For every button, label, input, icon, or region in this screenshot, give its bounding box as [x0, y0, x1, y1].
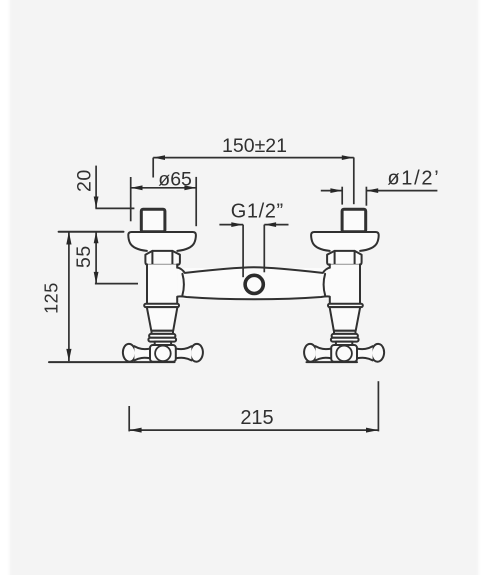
arrow 125 up — [66, 232, 71, 245]
svg-text:125: 125 — [42, 282, 62, 314]
svg-text:150±21: 150±21 — [222, 135, 287, 157]
left knob of cross handle — [122, 343, 136, 362]
wire wall plane line (left of escutcheon) — [59, 231, 124, 233]
hex nut — [145, 251, 180, 265]
dim 215 line — [129, 429, 378, 431]
arrow 20 down — [94, 197, 99, 209]
wire baseline under right handle — [307, 361, 358, 363]
arrow G1/2 left — [231, 222, 243, 227]
bar bottom edge — [177, 296, 330, 299]
right leg assembly (mirror) — [303, 209, 384, 362]
arrow ø1/2 outer — [366, 188, 378, 193]
shoulder ledge — [144, 304, 179, 307]
dim 125 line — [68, 232, 70, 362]
arrow 215 right — [366, 428, 378, 433]
arrow ø65 right — [184, 185, 196, 190]
right knob of cross handle — [190, 343, 204, 362]
right horn arm — [176, 346, 192, 360]
dim G1/2 arrow lines — [219, 224, 243, 226]
stem neck — [152, 331, 174, 334]
svg-text:ø1/2’: ø1/2’ — [387, 168, 440, 190]
arrow ø65 left — [131, 185, 143, 190]
svg-text:215: 215 — [240, 407, 273, 429]
valve body cylinder — [147, 264, 177, 304]
connector square (inlet) — [141, 209, 165, 232]
wire joint arc left bar end — [182, 274, 184, 295]
outlet ring G1/2 — [245, 275, 263, 293]
arrow 55 down — [94, 272, 99, 284]
arrow 125 down — [66, 349, 71, 361]
svg-text:ø65: ø65 — [158, 168, 192, 190]
arrow 150 left — [153, 155, 165, 160]
dim ø1/2 lines — [321, 190, 342, 192]
bonnet ring 1 — [149, 334, 175, 338]
handle hub — [150, 345, 176, 362]
left leg assembly — [122, 209, 203, 362]
wire joint arc right bar end — [324, 274, 326, 295]
svg-text:G1/2”: G1/2” — [231, 201, 284, 223]
escutcheon bell — [128, 232, 196, 251]
arrow 55 up — [94, 232, 99, 244]
dim ø65 line — [131, 187, 197, 189]
handle circle — [155, 346, 171, 362]
left horn arm — [134, 346, 150, 360]
bar body fill — [172, 267, 335, 299]
bonnet ring 2 — [148, 338, 176, 342]
arrow 150 right — [342, 155, 354, 160]
arrow G1/2 right — [264, 222, 276, 227]
svg-text:55: 55 — [73, 245, 95, 268]
arrow ø1/2 inner — [330, 188, 342, 193]
dim 150±21 line — [153, 157, 354, 159]
wire baseline under left handle (125 bottom reference) — [49, 361, 175, 363]
arrow 215 left — [129, 428, 141, 433]
frustum taper — [147, 307, 178, 331]
svg-text:20: 20 — [74, 169, 96, 192]
handle stem — [155, 342, 171, 347]
arrowheads — [66, 155, 378, 432]
bar top edge — [177, 267, 330, 273]
dim 20 line — [95, 166, 97, 209]
dim 55 line — [95, 232, 97, 284]
